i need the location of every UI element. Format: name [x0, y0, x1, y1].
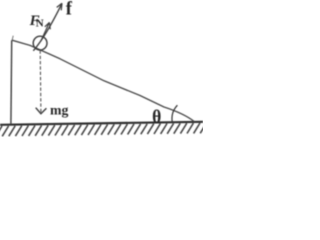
- normal force arrow F_N shaft: [41, 22, 50, 41]
- svg-text:N: N: [36, 18, 44, 30]
- arrowhead of mg (wide V): [36, 108, 47, 114]
- ground hatching: [0, 123, 207, 136]
- arrowhead of F_N: [45, 22, 51, 29]
- apex overshoot tick: [12, 36, 13, 41]
- angle arc: [172, 105, 177, 122]
- arrowhead of f: [57, 3, 62, 10]
- svg-text:mg: mg: [50, 103, 68, 118]
- force arrow f (shaft through ball): [33, 3, 62, 51]
- svg-text:f: f: [66, 0, 73, 20]
- ball (circle): [33, 36, 47, 50]
- weight arrow mg shaft (faint dashed): [39, 50, 42, 112]
- incline left vertical side: [10, 40, 13, 124]
- incline hypotenuse: [12, 40, 194, 121]
- svg-text:θ: θ: [152, 107, 161, 128]
- ground line: [0, 122, 203, 125]
